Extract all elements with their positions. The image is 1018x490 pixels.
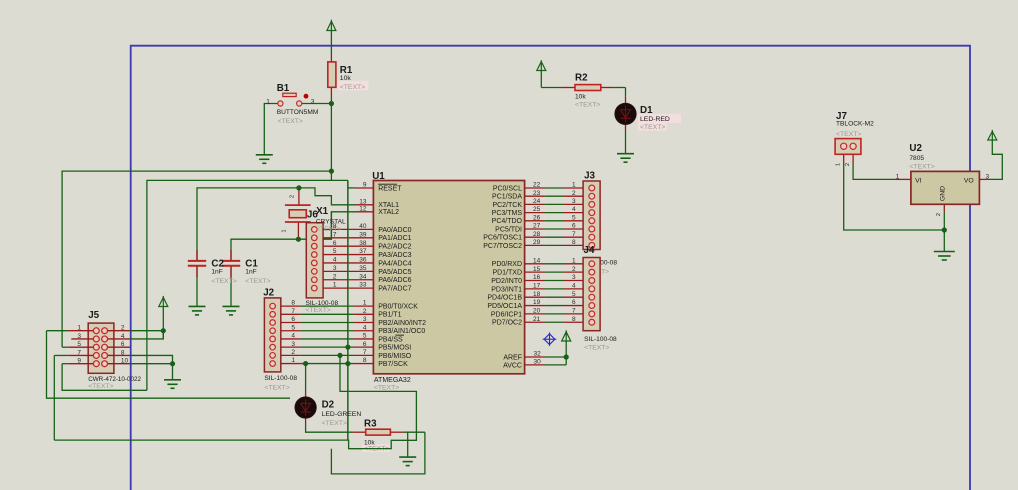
svg-text:PD1/TXD: PD1/TXD (492, 270, 522, 277)
svg-text:3: 3 (986, 173, 990, 180)
svg-text:8: 8 (572, 239, 576, 246)
svg-text:37: 37 (359, 248, 367, 255)
svg-text:PB7/SCK: PB7/SCK (378, 361, 408, 368)
svg-text:3: 3 (77, 333, 81, 340)
svg-text:35: 35 (359, 265, 367, 272)
svg-text:7805: 7805 (909, 155, 924, 162)
svg-text:SIL-100-08: SIL-100-08 (584, 336, 617, 343)
svg-text:<TEXT>: <TEXT> (374, 385, 399, 392)
svg-text:4: 4 (291, 333, 295, 340)
svg-text:PC4/TDO: PC4/TDO (492, 218, 523, 225)
svg-text:D1: D1 (640, 105, 653, 116)
svg-text:19: 19 (533, 299, 541, 306)
svg-text:1: 1 (363, 300, 367, 307)
svg-text:PC5/TDI: PC5/TDI (495, 226, 522, 233)
svg-text:4: 4 (572, 282, 576, 289)
svg-text:PB2/AIN0/INT2: PB2/AIN0/INT2 (378, 320, 426, 327)
svg-text:2: 2 (572, 266, 576, 273)
svg-text:1: 1 (77, 325, 81, 332)
svg-text:8: 8 (291, 300, 295, 307)
svg-text:TBLOCK-M2: TBLOCK-M2 (836, 121, 874, 128)
svg-text:PA4/ADC4: PA4/ADC4 (378, 260, 411, 267)
svg-text:<TEXT>: <TEXT> (340, 84, 365, 91)
svg-text:U1: U1 (372, 171, 385, 182)
svg-text:32: 32 (534, 350, 542, 357)
svg-text:PD4/OC1B: PD4/OC1B (487, 295, 522, 302)
svg-text:27: 27 (533, 223, 541, 230)
svg-text:PD0/RXD: PD0/RXD (492, 261, 522, 268)
svg-text:U2: U2 (909, 143, 922, 154)
svg-text:5: 5 (363, 333, 367, 340)
svg-text:3: 3 (363, 316, 367, 323)
svg-text:PB0/T0/XCK: PB0/T0/XCK (378, 304, 418, 311)
svg-text:1nF: 1nF (245, 269, 256, 276)
svg-text:J4: J4 (584, 245, 595, 256)
svg-text:PD6/ICP1: PD6/ICP1 (491, 311, 522, 318)
svg-text:7: 7 (77, 349, 81, 356)
svg-text:<TEXT>: <TEXT> (245, 278, 270, 285)
svg-text:SIL-100-08: SIL-100-08 (264, 375, 297, 382)
svg-text:2: 2 (290, 195, 296, 198)
svg-text:PC6/TOSC1: PC6/TOSC1 (483, 235, 522, 242)
svg-text:PB4/SS: PB4/SS (378, 336, 403, 343)
svg-text:PD3/INT1: PD3/INT1 (491, 286, 522, 293)
svg-text:B1: B1 (277, 83, 290, 94)
svg-text:<TEXT>: <TEXT> (836, 131, 861, 138)
svg-text:PA0/ADC0: PA0/ADC0 (378, 227, 411, 234)
svg-text:J5: J5 (88, 310, 99, 321)
svg-text:<TEXT>: <TEXT> (211, 278, 236, 285)
svg-text:SIL-100-08: SIL-100-08 (306, 300, 339, 307)
svg-text:22: 22 (533, 182, 541, 189)
svg-text:5: 5 (572, 214, 576, 221)
svg-text:38: 38 (359, 240, 367, 247)
svg-text:1: 1 (896, 173, 900, 180)
svg-text:2: 2 (121, 325, 125, 332)
svg-text:2: 2 (572, 190, 576, 197)
svg-text:8: 8 (363, 357, 367, 364)
svg-text:<TEXT>: <TEXT> (575, 102, 600, 109)
svg-text:15: 15 (533, 266, 541, 273)
svg-text:PA5/ADC5: PA5/ADC5 (378, 269, 411, 276)
svg-text:LED-GREEN: LED-GREEN (322, 411, 362, 418)
svg-text:5: 5 (77, 341, 81, 348)
svg-text:8: 8 (333, 223, 337, 230)
svg-text:J2: J2 (263, 287, 274, 298)
svg-text:PB5/MOSI: PB5/MOSI (378, 345, 411, 352)
svg-text:23: 23 (533, 190, 541, 197)
svg-text:10k: 10k (340, 75, 352, 82)
svg-text:13: 13 (359, 198, 367, 205)
svg-text:10: 10 (121, 358, 129, 365)
svg-text:J6: J6 (307, 210, 318, 221)
svg-text:2: 2 (845, 163, 851, 166)
svg-text:3: 3 (291, 341, 295, 348)
svg-text:3: 3 (311, 98, 315, 105)
svg-text:<TEXT>: <TEXT> (322, 420, 347, 427)
svg-text:5: 5 (291, 324, 295, 331)
svg-text:PD7/OC2: PD7/OC2 (492, 320, 522, 327)
svg-text:39: 39 (359, 231, 367, 238)
svg-text:4: 4 (121, 333, 125, 340)
svg-text:17: 17 (533, 282, 541, 289)
svg-text:J3: J3 (584, 171, 595, 182)
svg-text:VI: VI (915, 178, 922, 185)
svg-text:1nF: 1nF (211, 269, 222, 276)
svg-text:1: 1 (836, 163, 842, 166)
svg-text:12: 12 (359, 205, 367, 212)
svg-text:1: 1 (572, 182, 576, 189)
svg-text:26: 26 (533, 214, 541, 221)
svg-text:PA3/ADC3: PA3/ADC3 (378, 252, 411, 259)
svg-text:RESET: RESET (378, 185, 402, 192)
svg-text:1: 1 (333, 282, 337, 289)
svg-text:PD5/OC1A: PD5/OC1A (487, 303, 522, 310)
svg-text:2: 2 (363, 308, 367, 315)
svg-text:5: 5 (572, 291, 576, 298)
svg-text:PB1/T1: PB1/T1 (378, 312, 401, 319)
svg-text:36: 36 (359, 257, 367, 264)
svg-text:<TEXT>: <TEXT> (640, 124, 665, 131)
svg-text:24: 24 (533, 198, 541, 205)
svg-text:6: 6 (121, 341, 125, 348)
svg-text:PC1/SDA: PC1/SDA (492, 194, 522, 201)
svg-text:VO: VO (964, 178, 974, 185)
svg-text:20: 20 (533, 308, 541, 315)
svg-text:7: 7 (572, 308, 576, 315)
svg-text:PA7/ADC7: PA7/ADC7 (378, 286, 411, 293)
svg-text:3: 3 (333, 265, 337, 272)
svg-text:30: 30 (534, 358, 542, 365)
svg-text:PA1/ADC1: PA1/ADC1 (378, 235, 411, 242)
svg-text:R3: R3 (364, 418, 377, 429)
svg-text:1: 1 (291, 357, 295, 364)
svg-text:1: 1 (572, 257, 576, 264)
svg-text:<TEXT>: <TEXT> (584, 345, 609, 352)
svg-text:40: 40 (359, 223, 367, 230)
svg-text:28: 28 (533, 231, 541, 238)
svg-text:18: 18 (533, 291, 541, 298)
svg-text:6: 6 (363, 341, 367, 348)
svg-text:R1: R1 (340, 65, 353, 76)
svg-text:25: 25 (533, 206, 541, 213)
svg-text:14: 14 (533, 257, 541, 264)
svg-text:7: 7 (291, 308, 295, 315)
svg-text:PC0/SCL: PC0/SCL (493, 185, 522, 192)
svg-text:PB3/AIN1/OC0: PB3/AIN1/OC0 (378, 328, 425, 335)
svg-text:4: 4 (363, 324, 367, 331)
svg-text:7: 7 (363, 349, 367, 356)
svg-text:7: 7 (333, 231, 337, 238)
svg-text:33: 33 (359, 282, 367, 289)
svg-text:PD2/INT0: PD2/INT0 (491, 278, 522, 285)
svg-text:CRYSTAL: CRYSTAL (316, 219, 346, 226)
svg-text:ATMEGA32: ATMEGA32 (374, 377, 411, 384)
svg-text:PC3/TMS: PC3/TMS (492, 210, 523, 217)
svg-text:BUTTON5MM: BUTTON5MM (277, 109, 319, 116)
svg-text:PA6/ADC6: PA6/ADC6 (378, 277, 411, 284)
svg-text:GND: GND (940, 186, 947, 201)
svg-text:<TEXT>: <TEXT> (316, 226, 341, 233)
svg-text:4: 4 (572, 206, 576, 213)
svg-text:6: 6 (572, 223, 576, 230)
svg-text:D2: D2 (322, 400, 335, 411)
svg-text:2: 2 (291, 349, 295, 356)
svg-text:8: 8 (572, 316, 576, 323)
svg-text:AREF: AREF (503, 354, 522, 361)
svg-text:R2: R2 (575, 73, 588, 84)
svg-text:6: 6 (572, 299, 576, 306)
svg-text:10k: 10k (575, 94, 586, 101)
svg-text:6: 6 (333, 240, 337, 247)
svg-text:<TEXT>: <TEXT> (88, 383, 113, 390)
svg-text:1: 1 (282, 229, 288, 232)
svg-text:PB6/MISO: PB6/MISO (378, 353, 412, 360)
svg-text:2: 2 (333, 273, 337, 280)
svg-text:6: 6 (291, 316, 295, 323)
svg-text:PC2/TCK: PC2/TCK (492, 202, 522, 209)
svg-text:<TEXT>: <TEXT> (264, 384, 289, 391)
svg-text:<TEXT>: <TEXT> (909, 163, 934, 170)
svg-text:5: 5 (333, 248, 337, 255)
svg-text:LED-RED: LED-RED (640, 116, 670, 123)
svg-text:<TEXT>: <TEXT> (306, 307, 331, 314)
svg-text:AVCC: AVCC (503, 362, 522, 369)
svg-text:XTAL2: XTAL2 (378, 209, 399, 216)
svg-text:4: 4 (333, 257, 337, 264)
svg-text:<TEXT>: <TEXT> (278, 118, 303, 125)
svg-text:X1: X1 (316, 206, 329, 217)
svg-text:PA2/ADC2: PA2/ADC2 (378, 244, 411, 251)
svg-text:34: 34 (359, 273, 367, 280)
svg-text:9: 9 (363, 182, 367, 189)
svg-text:21: 21 (533, 316, 541, 323)
svg-text:3: 3 (572, 274, 576, 281)
svg-text:3: 3 (572, 198, 576, 205)
svg-text:2: 2 (936, 213, 942, 216)
svg-text:1: 1 (266, 98, 270, 105)
svg-text:PC7/TOSC2: PC7/TOSC2 (483, 243, 522, 250)
svg-text:7: 7 (572, 231, 576, 238)
svg-text:8: 8 (121, 349, 125, 356)
svg-text:CWR-472-10-0022: CWR-472-10-0022 (88, 376, 141, 383)
svg-text:16: 16 (533, 274, 541, 281)
svg-text:9: 9 (77, 358, 81, 365)
svg-text:XTAL1: XTAL1 (378, 202, 399, 209)
svg-text:29: 29 (533, 239, 541, 246)
